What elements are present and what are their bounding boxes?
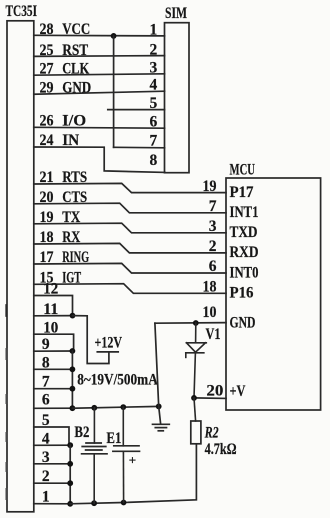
pin 18 MCU label: [203, 279, 217, 296]
wire RX pin18 to MCU RXD: [34, 243, 226, 253]
svg-text:19: 19: [203, 178, 217, 195]
svg-text:10: 10: [203, 304, 217, 321]
zener diode V1 label: [206, 326, 221, 343]
junction rail E1 top: [120, 404, 126, 410]
pin 27 CLK label: [40, 61, 90, 78]
pin 3 label: [42, 449, 50, 466]
ground symbol: [153, 424, 170, 431]
svg-text:MCU: MCU: [230, 162, 256, 179]
pin 6 MCU label: [209, 258, 217, 275]
junction pin7: [70, 386, 76, 392]
svg-text:3: 3: [209, 218, 217, 235]
svg-text:INT1: INT1: [230, 204, 259, 221]
wire CTS pin20 to MCU INT1: [34, 203, 226, 213]
pin 19 MCU label: [203, 178, 217, 195]
wire ground rail to ground symbol: [72, 406, 158, 408]
resistor R2 label: [204, 424, 219, 441]
module TC35I label: [6, 3, 38, 20]
MCU pin name TXD: [230, 224, 258, 241]
pin 7 label: [42, 374, 50, 391]
connector SIM label: [165, 5, 187, 22]
IC MCU box: [226, 178, 321, 410]
wire RTS pin21 to MCU P17: [34, 183, 226, 192]
wire RING pin17 to MCU INT0: [34, 263, 226, 273]
svg-text:6: 6: [42, 392, 50, 409]
junction pin8: [70, 366, 76, 372]
svg-text:E1: E1: [106, 430, 121, 447]
wire IN pin24 to SIM pin8: [34, 147, 165, 172]
pin 26 I/O label: [40, 112, 87, 129]
pin 24 IN label: [40, 132, 80, 149]
pin 3 SIM label: [149, 59, 157, 76]
wire pin7: [34, 388, 73, 390]
wire pin11: [34, 315, 73, 317]
pin 28 VCC label: [40, 21, 91, 38]
wire VCC vertical to SIM pin7: [113, 36, 115, 147]
MCU pin name RXD: [230, 244, 259, 261]
pin 2 label: [42, 468, 50, 485]
junction GND / V1: [193, 320, 199, 326]
pin 17 RING label: [40, 249, 90, 266]
pin 12 label: [43, 281, 58, 298]
pin 6 SIM label: [149, 114, 157, 131]
pin 8 label: [42, 354, 50, 371]
junction +V / V1 / R2: [191, 395, 197, 401]
wire I/O pin26 to SIM pin6: [34, 126, 165, 129]
wire CLK pin27 to SIM pin3: [34, 74, 165, 75]
junction VCC node: [111, 33, 117, 39]
pin 2 SIM label: [149, 41, 157, 58]
pin 20 CTS label: [40, 189, 88, 206]
MCU pin name P16: [230, 285, 254, 302]
svg-text:P16: P16: [230, 285, 254, 302]
svg-text:SIM: SIM: [165, 5, 187, 22]
pin 19 TX label: [40, 209, 81, 226]
svg-text:GND: GND: [230, 315, 256, 332]
svg-text:TXD: TXD: [230, 224, 258, 241]
MCU pin name INT1: [230, 204, 259, 221]
svg-text:B2: B2: [74, 424, 89, 441]
wire pin8: [34, 368, 73, 370]
svg-text:18: 18: [203, 279, 217, 296]
resistor R2: [191, 398, 201, 444]
svg-text:20: 20: [206, 382, 223, 399]
module TC35I connector box: [6, 21, 34, 512]
pin 11 label: [43, 301, 58, 318]
junction rail end at ground: [156, 404, 162, 410]
pin 18 RX label: [40, 229, 81, 246]
junction pin1: [67, 501, 73, 507]
pin 3 MCU label: [209, 218, 217, 235]
zener diode V1: [186, 323, 207, 398]
wire pin3: [34, 463, 70, 465]
resistor R2 value 4.7k: [205, 441, 237, 458]
battery B2: [82, 408, 107, 503]
pin 10 MCU label: [203, 304, 217, 321]
svg-text:8~19V/500mA: 8~19V/500mA: [77, 372, 158, 389]
MCU pin name P17: [230, 184, 254, 201]
pin 5 SIM label: [149, 95, 157, 112]
junction bottom rail E1: [121, 500, 127, 506]
wire bottom rail: [70, 444, 196, 504]
pin 2 MCU label: [209, 238, 217, 255]
connector SIM box: [165, 23, 190, 173]
junction pin3: [67, 461, 73, 467]
junction pin2: [67, 480, 73, 486]
svg-text:R2: R2: [204, 424, 219, 441]
junction pin9: [70, 348, 76, 354]
wire ground bus vertical pins 9-6: [71, 351, 73, 408]
svg-text:4.7kΩ: 4.7kΩ: [205, 441, 237, 458]
wire pin5 to pin4: [34, 427, 69, 445]
wire TX pin19 to MCU TXD: [34, 223, 226, 233]
pin 7 MCU label: [209, 198, 217, 215]
wire pin10 to pin9: [34, 334, 74, 351]
svg-text:RXD: RXD: [230, 244, 259, 261]
pin 4 SIM label: [149, 77, 157, 94]
pin 15 IGT label: [40, 270, 82, 287]
wire to SIM pin7: [114, 146, 165, 149]
svg-text:V1: V1: [206, 326, 221, 343]
pin 1 SIM label: [149, 22, 157, 39]
junction pin4: [67, 442, 73, 448]
wire pin4: [34, 444, 70, 446]
junction bottom rail B2: [91, 500, 97, 506]
pin 1 label: [42, 489, 50, 506]
junction pin11/12 supply node: [70, 313, 76, 319]
svg-text:INT0: INT0: [230, 264, 259, 281]
pin 25 RST label: [40, 42, 89, 59]
MCU pin name INT0: [230, 264, 259, 281]
wire pin9: [34, 350, 73, 352]
svg-text:+: +: [129, 453, 136, 468]
pin 5 label: [42, 412, 50, 429]
svg-text:TC35I: TC35I: [6, 3, 38, 20]
pin 20 MCU label: [206, 382, 223, 399]
capacitor E1 label: [106, 430, 121, 447]
pin 4 label: [42, 430, 50, 447]
battery B2 label: [74, 424, 89, 441]
pin 8 SIM label: [149, 152, 157, 169]
capacitor E1 polarity plus: [129, 453, 136, 468]
wire pin6: [34, 407, 73, 409]
wire GND pin29 to SIM pin4: [34, 91, 165, 94]
wire IGT pin15 to MCU P16: [34, 284, 226, 294]
svg-text:+12V: +12V: [95, 335, 123, 352]
MCU pin name GND: [230, 315, 256, 332]
wire +V pin20: [194, 397, 226, 400]
connector edge marks: [5, 348, 7, 500]
pin 21 RTS label: [40, 169, 88, 186]
svg-text:P17: P17: [230, 184, 254, 201]
wire pin1: [34, 503, 70, 505]
svg-text:6: 6: [209, 258, 217, 275]
svg-text:2: 2: [209, 238, 217, 255]
power +12V bar: [97, 351, 118, 353]
pin 10 label: [43, 319, 58, 336]
pin 6 label: [42, 392, 50, 409]
wire SIM pin5 stub: [108, 109, 165, 111]
wire pin12 to pin11: [34, 296, 73, 316]
wire battery bus vertical pins 4-1: [69, 445, 71, 504]
pin 29 GND label: [40, 80, 92, 97]
pin 7 SIM label: [149, 132, 157, 149]
wire pin2: [34, 482, 70, 484]
wire GND down to ground: [155, 323, 161, 423]
IC MCU label: [230, 162, 256, 179]
wire VCC pin28 to SIM pin1: [34, 34, 165, 37]
power +12V label: [95, 335, 123, 352]
wire RST pin25 to SIM pin2: [34, 55, 165, 58]
junction pin6: [70, 405, 76, 411]
svg-text:8: 8: [149, 152, 157, 169]
junction rail B2 top: [91, 405, 97, 411]
svg-text:7: 7: [209, 198, 217, 215]
MCU pin name +V: [230, 383, 247, 400]
wire supply node to +12V feed: [73, 316, 109, 364]
capacitor E1: [113, 407, 140, 502]
svg-text:+V: +V: [230, 383, 247, 400]
supply rating label 8~19V/500mA: [77, 372, 158, 389]
pin 9 label: [42, 336, 50, 353]
wire MCU GND: [155, 322, 226, 325]
